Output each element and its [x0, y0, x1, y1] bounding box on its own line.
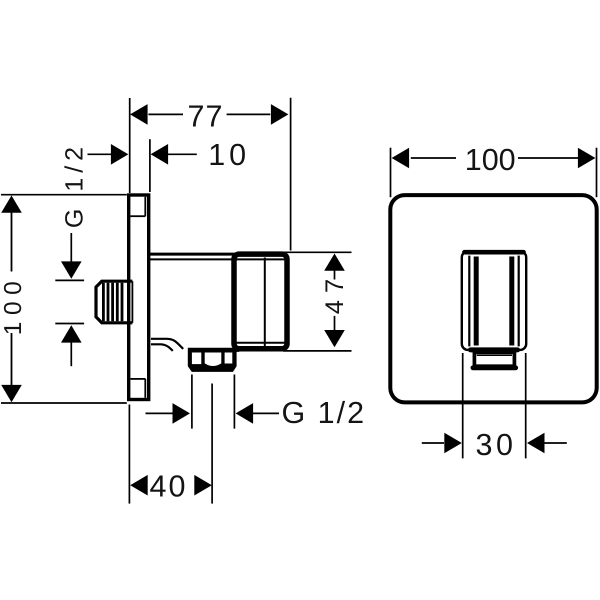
dim G1/2 left tick lower: [55, 323, 84, 325]
dim 77 arrow left: [130, 104, 148, 125]
dim 100 top extension line left: [390, 148, 392, 198]
dim 100 top arrow right: [578, 148, 596, 169]
dim 100 left extension line top: [1, 194, 127, 196]
svg-text:47: 47: [321, 272, 349, 314]
dim 30 extension line right: [525, 353, 527, 458]
dim G1/2 bottom extension line left: [191, 375, 193, 429]
wall plate inner horizontal line bottom: [130, 378, 145, 380]
dim 100 left arrow up: [1, 196, 22, 213]
dim 47 extension line bottom: [283, 350, 352, 352]
dim G1/2 left arrow up: [61, 325, 82, 342]
dim 77 extension line right: [290, 98, 292, 251]
body top inner line: [150, 258, 286, 260]
union nut body: [188, 348, 239, 372]
dim 100 top extension line right: [596, 148, 598, 198]
dim 40 extension line left: [128, 405, 130, 504]
dim 77 extension line left: [129, 98, 131, 193]
wall plate inner horizontal line top: [130, 215, 145, 217]
svg-text:100: 100: [0, 275, 27, 335]
dim G1/2 bottom lead line left: [146, 412, 174, 414]
dim 30 extension line left: [462, 353, 464, 458]
body underside lower line: [151, 344, 173, 351]
nut center facet window: [205, 353, 222, 367]
dim 10 line: [168, 153, 197, 155]
dim 30 lead line right: [544, 442, 566, 444]
dim 40 arrow right: [194, 475, 212, 496]
thread hatch lines: [103, 283, 122, 321]
dim 47 arrow down: [324, 330, 345, 347]
holder front top bar: [465, 250, 524, 255]
dim 100 top line: [411, 157, 581, 159]
dim 47 arrow up: [324, 254, 345, 271]
dim 100 left line: [11, 212, 13, 386]
wall plate inner vertical line top: [144, 197, 146, 217]
dim 40 arrow left: [130, 475, 148, 496]
holder (side view) thick rounded rect: [234, 254, 287, 349]
dim 30 arrow left: [527, 433, 545, 454]
holder front thick band left: [474, 257, 479, 346]
holder front thin line left: [468, 256, 470, 347]
holder front thick band right: [509, 257, 514, 346]
holder front thin line right: [518, 256, 520, 347]
dim G1/2 left tick upper: [55, 279, 84, 281]
dim 30 lead line left: [422, 442, 444, 444]
dim G1/2 left line lower: [70, 342, 72, 366]
dim 77 arrow right: [271, 104, 289, 125]
dim 10 lead line: [88, 153, 112, 155]
threaded inlet right edge line: [131, 281, 133, 323]
holder front lower block bottom edge: [473, 365, 516, 370]
holder side inner bottom line: [233, 342, 286, 344]
svg-text:40: 40: [150, 470, 188, 504]
nut left facet window: [192, 353, 201, 365]
dim 10 extension line: [149, 139, 151, 192]
threaded inlet G1/2 outline: [96, 281, 132, 323]
svg-text:G 1/2: G 1/2: [60, 142, 88, 228]
holder front lower block: [474, 352, 514, 366]
dim G1/2 bottom arrow right: [173, 403, 191, 424]
holder side inner vertical line: [264, 258, 266, 347]
dim 10 arrow right: [151, 144, 169, 165]
nut right facet window: [225, 353, 233, 364]
body underside upper line: [151, 339, 183, 349]
svg-text:30: 30: [476, 428, 517, 462]
dim 77 line: [148, 113, 270, 115]
dim G1/2 left arrow down: [61, 261, 82, 278]
dim 100 top arrow left: [392, 148, 410, 169]
holder front outer outline: [462, 251, 526, 350]
svg-text:10: 10: [208, 138, 250, 172]
holder front lower block inner line: [477, 354, 512, 356]
dim 100 left arrow down: [1, 385, 22, 402]
body top outer line: [150, 253, 236, 256]
svg-text:G 1/2: G 1/2: [281, 396, 366, 430]
dim 10 arrow left: [111, 144, 128, 165]
svg-text:100: 100: [465, 143, 516, 177]
dim G1/2 left line upper: [70, 233, 72, 262]
dim 30 arrow right: [444, 433, 462, 454]
escutcheon square: [390, 195, 596, 402]
dim G1/2 bottom arrow left: [236, 403, 254, 424]
dim 47 line lower: [334, 316, 336, 331]
dim 100 left extension line bottom: [1, 402, 127, 404]
dim 47 line upper: [334, 270, 336, 279]
holder front bottom bar: [471, 347, 518, 352]
dim 40 extension line right: [211, 384, 213, 504]
dim 47 extension line top: [283, 251, 352, 253]
wall plate inner vertical line bottom: [144, 379, 146, 398]
wall plate (side view) outer: [129, 195, 149, 400]
dim G1/2 bottom line right: [253, 412, 279, 414]
dim G1/2 bottom extension line right: [233, 375, 235, 429]
svg-text:77: 77: [188, 100, 224, 134]
